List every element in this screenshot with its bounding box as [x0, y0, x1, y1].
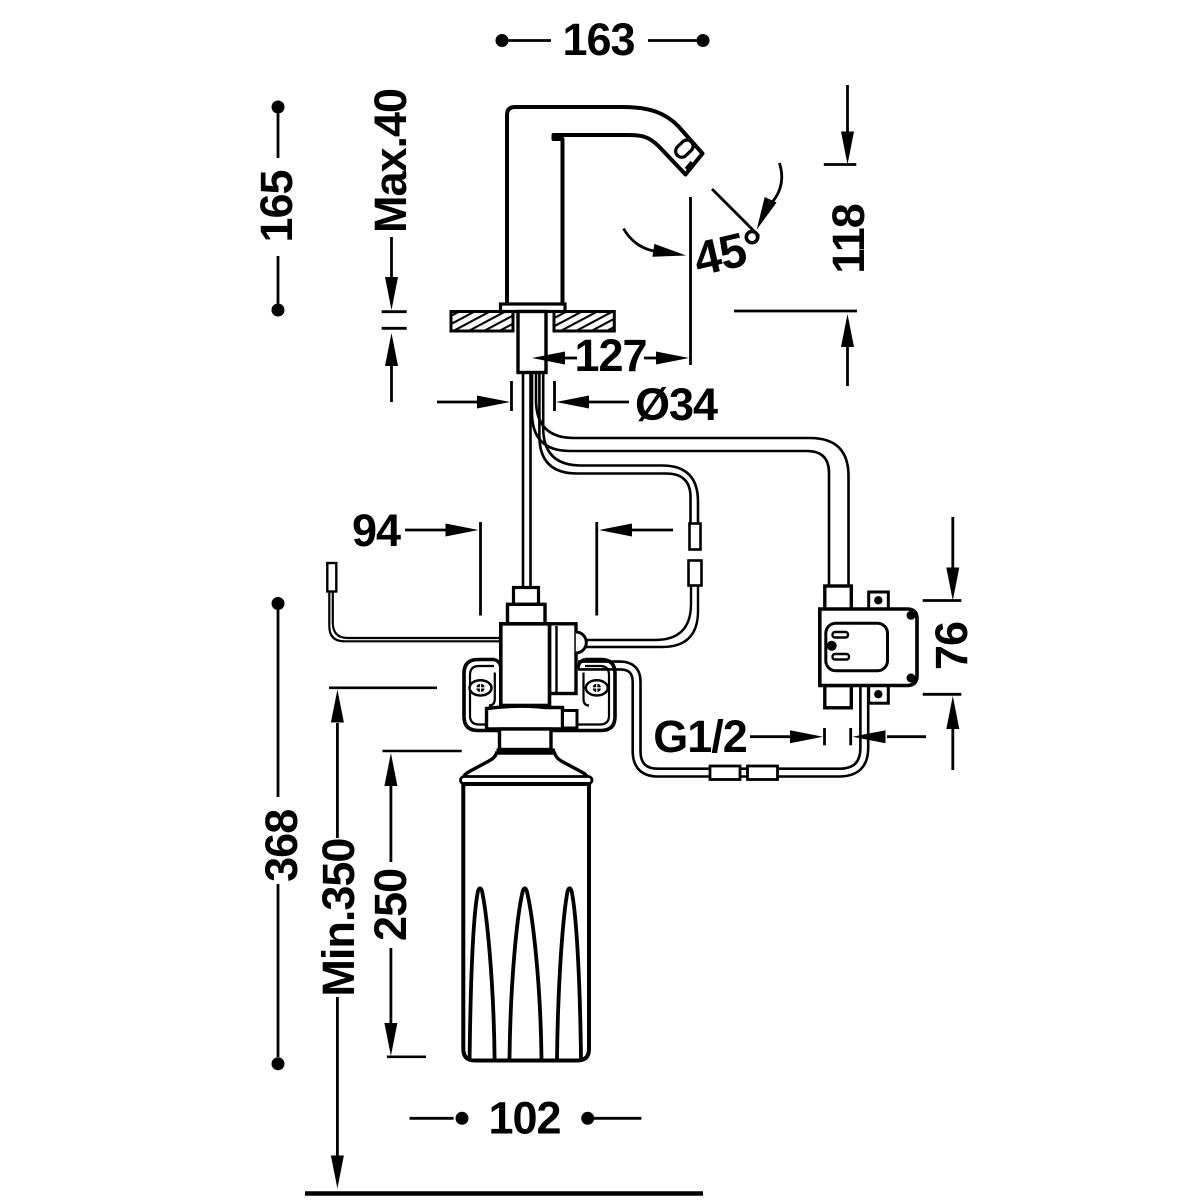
svg-text:Ø34: Ø34	[635, 379, 718, 430]
svg-text:250: 250	[365, 869, 416, 941]
svg-text:127: 127	[574, 330, 646, 381]
svg-text:165: 165	[251, 170, 302, 242]
svg-text:76: 76	[926, 622, 977, 670]
svg-text:94: 94	[352, 505, 401, 556]
svg-text:Min.350: Min.350	[313, 839, 364, 997]
svg-text:G1/2: G1/2	[653, 711, 747, 762]
svg-text:368: 368	[256, 810, 307, 882]
svg-text:Max.40: Max.40	[365, 89, 416, 233]
svg-text:118: 118	[823, 204, 874, 274]
svg-text:102: 102	[488, 1093, 560, 1144]
svg-text:163: 163	[562, 14, 634, 65]
